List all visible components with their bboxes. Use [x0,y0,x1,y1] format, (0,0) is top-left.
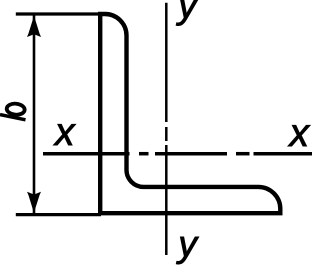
dimension line b [33,15,36,214]
arrowhead up [27,16,41,37]
x axis (dash-dot centerline) [43,152,312,156]
label b (rotated, drawn as shapes) [0,103,26,120]
extension line top [16,12,100,15]
y axis (dash-dot centerline) [165,3,168,255]
arrowhead down [27,192,41,213]
svg-text:y: y [175,224,199,265]
svg-text:x: x [288,112,311,155]
angle profile outline [100,14,280,213]
svg-text:x: x [53,111,76,154]
svg-text:y: y [175,0,199,26]
extension line bottom [16,213,101,216]
